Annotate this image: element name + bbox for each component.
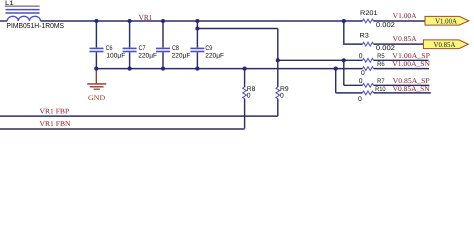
wire R10 row <box>336 92 363 94</box>
junction rail to R3 drop <box>342 19 346 23</box>
junction R10 drop <box>334 67 338 71</box>
resistor R5 <box>359 53 385 62</box>
junction C6 top <box>94 19 98 23</box>
svg-text:R3: R3 <box>360 33 370 40</box>
junction R7 stub <box>342 58 346 62</box>
resistor R201 <box>360 10 395 29</box>
junction R5 node <box>276 58 280 62</box>
power flag V1.00A <box>425 16 469 25</box>
svg-text:V1.00A: V1.00A <box>435 16 458 25</box>
svg-text:0: 0 <box>247 93 251 100</box>
resistor R7 <box>359 78 385 87</box>
svg-text:VR1 FBP: VR1 FBP <box>40 107 70 115</box>
junction C8 top <box>161 19 165 23</box>
junction R8 top <box>243 67 247 71</box>
wire VR1 FBN <box>0 128 245 130</box>
wire R5 row <box>278 59 363 61</box>
junction C9 bottom <box>195 67 199 71</box>
resistor R9 <box>276 60 289 116</box>
svg-text:R5: R5 <box>377 53 385 60</box>
svg-text:V1.00A_SP: V1.00A_SP <box>392 52 430 60</box>
svg-text:220µF: 220µF <box>205 53 224 60</box>
wire left entry to L1 <box>0 20 7 22</box>
svg-text:VR1: VR1 <box>139 13 153 22</box>
svg-text:0: 0 <box>280 93 284 100</box>
svg-text:R6: R6 <box>377 61 385 68</box>
capacitor C7 <box>123 21 157 69</box>
svg-text:V0.85A: V0.85A <box>434 40 457 49</box>
svg-text:VR1 FBN: VR1 FBN <box>40 120 72 128</box>
svg-text:220µF: 220µF <box>138 53 157 60</box>
ground <box>87 69 106 103</box>
resistor R10 <box>358 86 386 103</box>
wire GND rail after R6 <box>374 68 430 70</box>
junction C7 top <box>128 19 132 23</box>
wire GND rail <box>96 68 362 70</box>
wire stub R5 node down to R7 row <box>343 60 345 85</box>
wire drop from rail to R3 feed <box>344 21 363 44</box>
svg-text:GND: GND <box>88 94 105 102</box>
junction C7 bottom <box>128 67 132 71</box>
junction C8 bottom <box>161 67 165 71</box>
svg-text:0: 0 <box>359 78 363 85</box>
svg-text:C9: C9 <box>205 45 212 52</box>
inductor L1 <box>5 0 64 30</box>
junction C9 top <box>195 19 199 23</box>
wire branch from C9 vertical to sense drop <box>197 28 277 30</box>
capacitor C8 <box>156 21 190 69</box>
svg-text:0: 0 <box>359 53 363 60</box>
wire top rail VR1 <box>41 20 363 22</box>
svg-text:0: 0 <box>358 96 362 103</box>
resistor R8 <box>243 69 256 129</box>
resistor R6 (in GND rail) <box>361 61 385 77</box>
svg-text:V1.00A_SN: V1.00A_SN <box>392 60 431 68</box>
svg-text:C6: C6 <box>106 45 113 52</box>
svg-text:V0.85A_SP: V0.85A_SP <box>393 77 430 85</box>
svg-text:100µF: 100µF <box>106 53 125 60</box>
capacitor C9 <box>190 21 224 69</box>
svg-text:V0.85A: V0.85A <box>393 35 418 43</box>
capacitor C6 <box>90 21 126 69</box>
wire drop GND rail to R10 row <box>335 69 337 93</box>
wire R7 row <box>344 84 363 86</box>
svg-text:R7: R7 <box>377 78 385 85</box>
svg-text:R201: R201 <box>360 10 378 17</box>
junction branch node <box>195 26 199 30</box>
svg-text:C7: C7 <box>139 45 146 52</box>
svg-text:V1.00A: V1.00A <box>393 12 418 20</box>
wire rail after R201 to flag <box>374 20 425 22</box>
svg-text:V0.85A_SN: V0.85A_SN <box>393 85 431 93</box>
svg-text:220µF: 220µF <box>172 53 191 60</box>
svg-text:0.002: 0.002 <box>376 22 395 29</box>
svg-text:PIMB051H-1R0MS: PIMB051H-1R0MS <box>7 21 65 30</box>
resistor R3 <box>360 33 396 52</box>
svg-text:0: 0 <box>361 70 365 77</box>
svg-text:C8: C8 <box>172 45 179 52</box>
svg-text:R10: R10 <box>375 86 386 93</box>
power flag V0.85A <box>423 40 468 49</box>
wire VR1 FBP <box>0 115 278 117</box>
wire vertical drop to R5 node <box>277 29 279 61</box>
wire R3 to flag <box>374 43 424 45</box>
junction GND symbol <box>94 67 98 71</box>
